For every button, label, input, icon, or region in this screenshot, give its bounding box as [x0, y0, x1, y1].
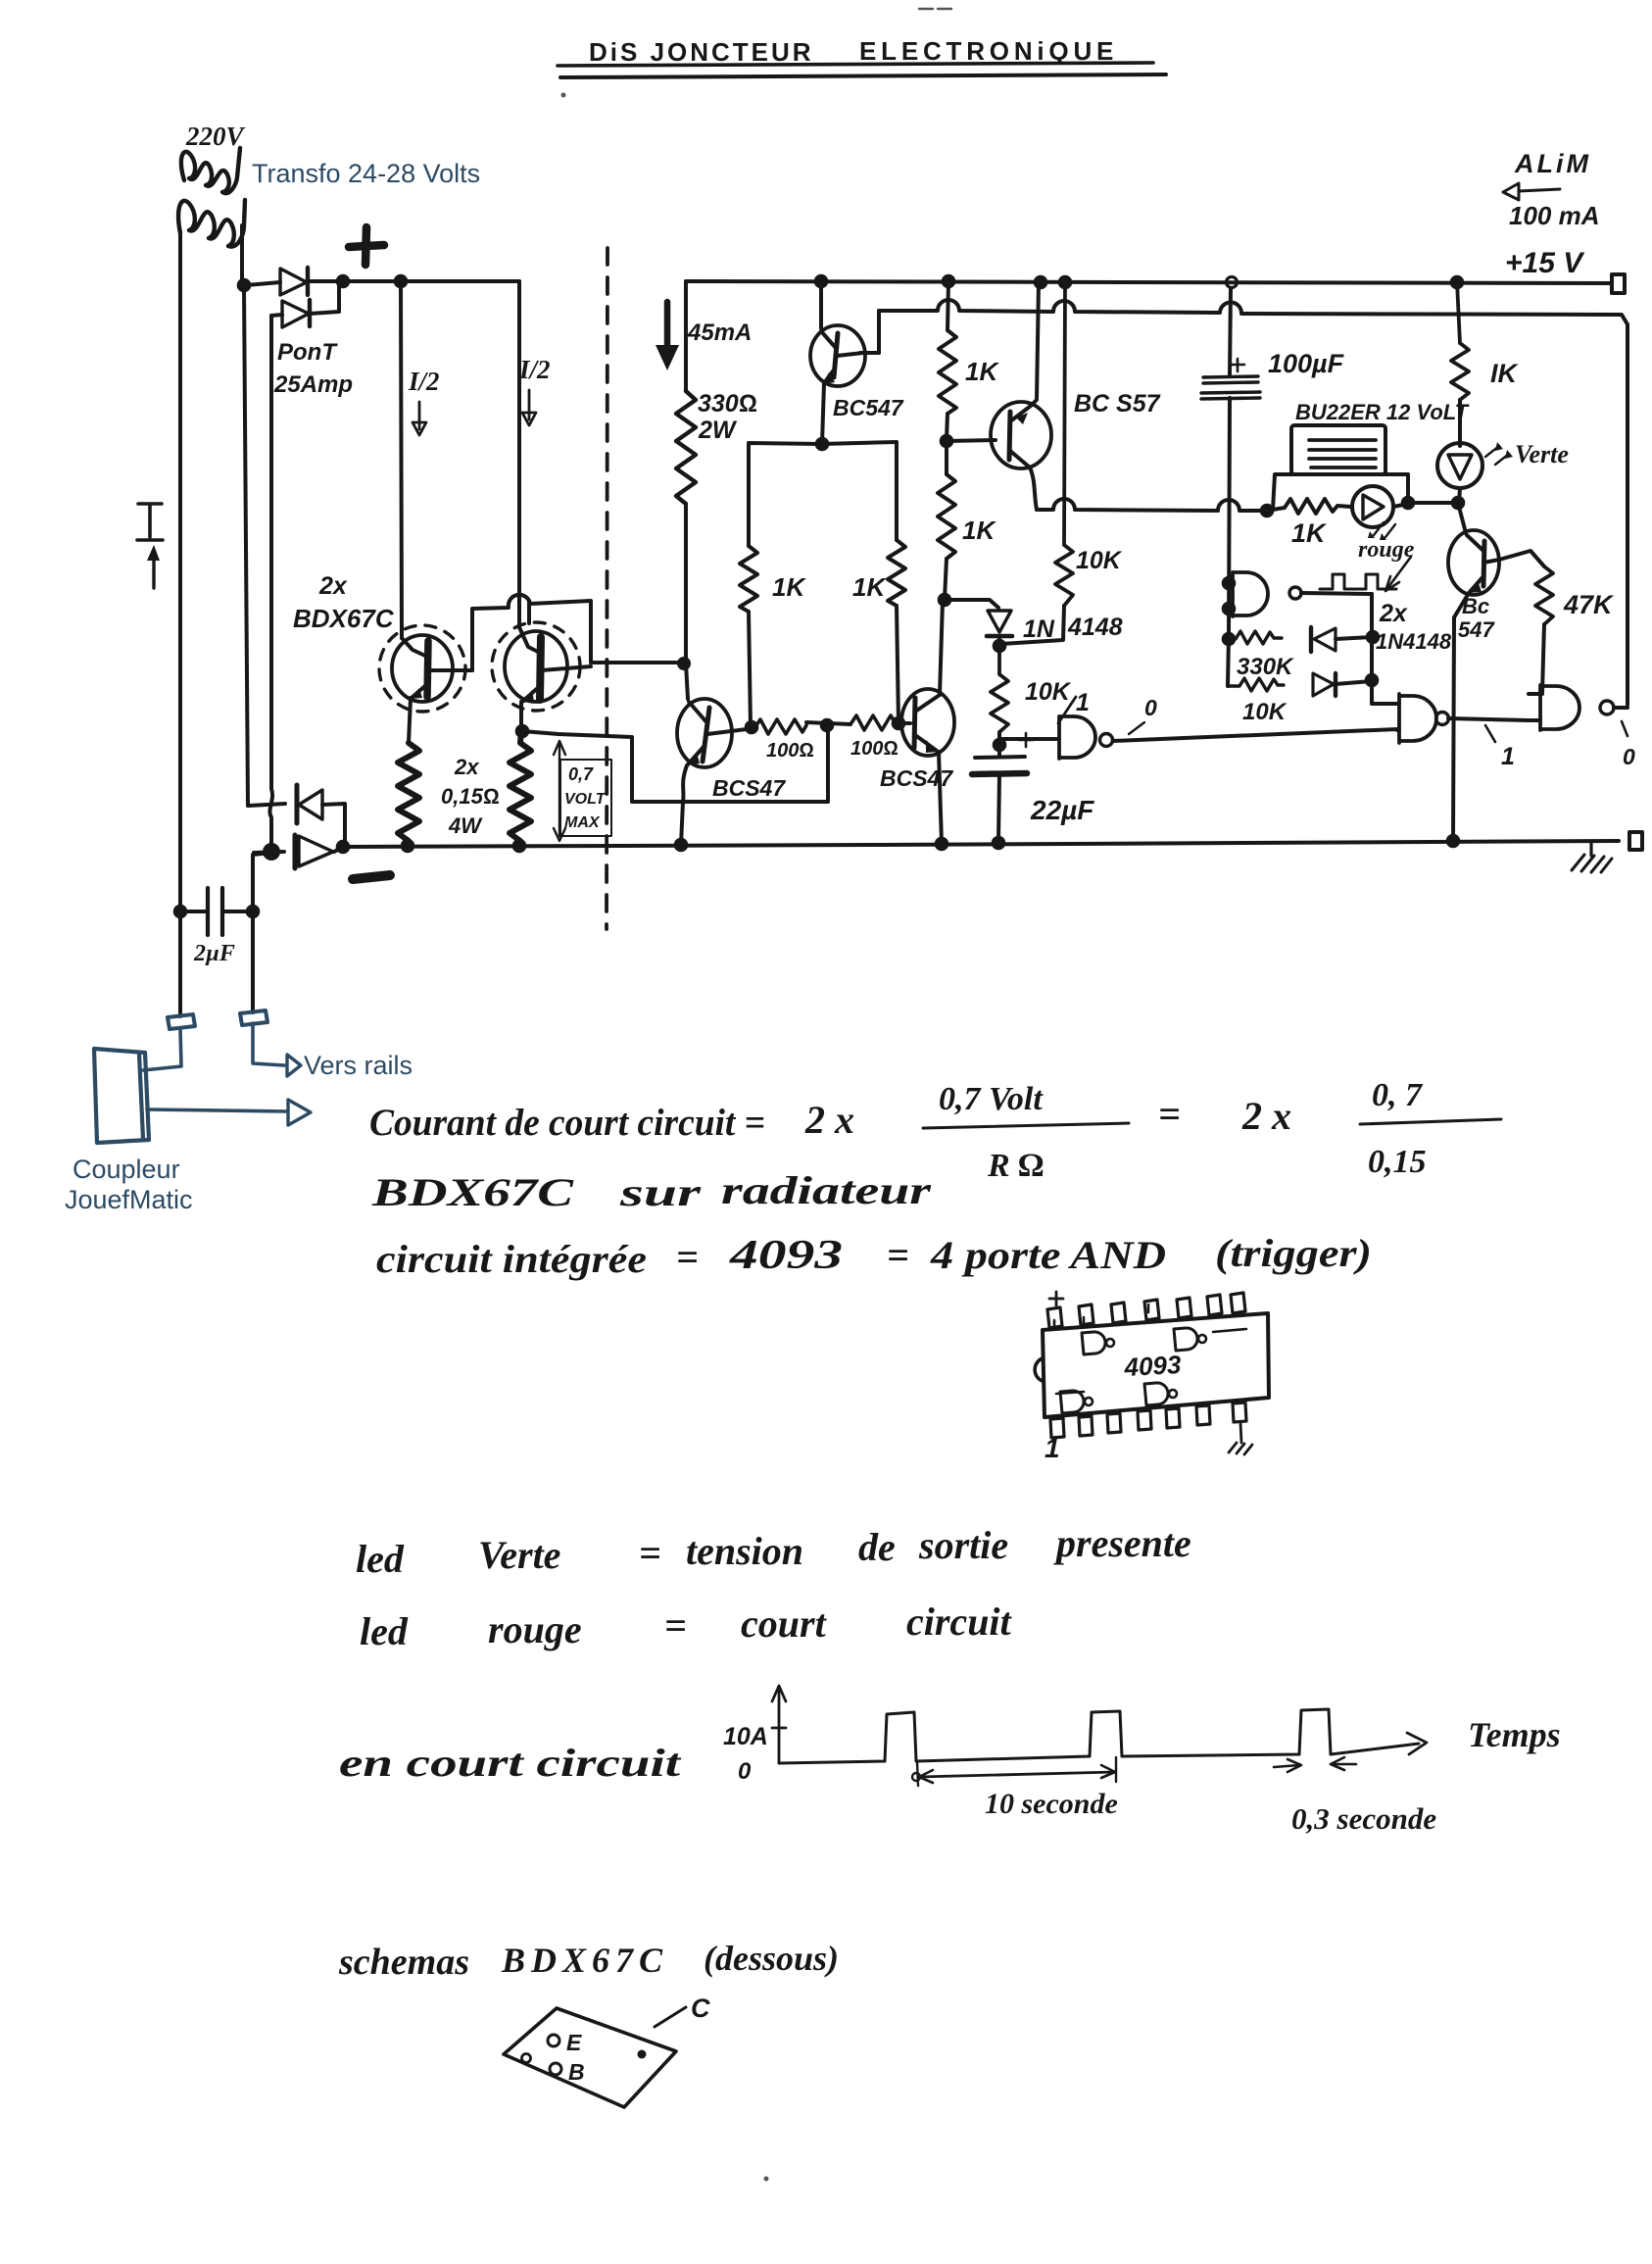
timing waveform	[779, 1709, 1419, 1763]
svg-text:100µF: 100µF	[1268, 349, 1345, 378]
svg-text:100 mA: 100 mA	[1509, 201, 1600, 230]
label 2x BDX67C	[293, 572, 395, 633]
node 100uF rail open	[1227, 277, 1238, 288]
resistor R9 1K col A lower	[938, 441, 955, 559]
wire feedback second line with hops	[860, 300, 1628, 705]
resistor R3 330ohm 2W	[676, 391, 696, 504]
wire Q2 collector vertical	[517, 281, 521, 627]
svg-text:circuit: circuit	[906, 1600, 1013, 1644]
node Q4 emitter on rail	[674, 838, 689, 853]
IC pin 3	[1107, 1413, 1121, 1433]
buzzer BZ1	[1291, 425, 1385, 474]
svg-text:de: de	[858, 1525, 896, 1569]
svg-text:10A: 10A	[723, 1723, 768, 1750]
node cap left	[173, 905, 188, 919]
wire Q1 collector vertical	[401, 281, 402, 638]
node BC557 emitter rail	[1034, 275, 1048, 290]
package hole B	[550, 2063, 561, 2075]
svg-text:0: 0	[1623, 744, 1635, 769]
IC pin 13	[1079, 1304, 1093, 1325]
IC internal gate b	[1174, 1328, 1197, 1351]
svg-text:PonT: PonT	[277, 339, 338, 366]
svg-text:2 x: 2 x	[1241, 1094, 1291, 1138]
svg-text:(trigger): (trigger)	[1215, 1231, 1372, 1275]
node 1K col A	[942, 274, 956, 289]
resistor R2 0.15ohm	[510, 731, 531, 841]
svg-text:22µF: 22µF	[1030, 795, 1094, 825]
IC pin 4	[1138, 1410, 1151, 1430]
node BC557 base branch	[940, 434, 954, 449]
IC pin 14	[1047, 1307, 1062, 1328]
label BCS47	[712, 775, 786, 801]
svg-text:led: led	[360, 1609, 409, 1653]
wire top-left + rail	[343, 279, 519, 283]
LED D8 rouge	[1352, 486, 1393, 527]
svg-text:circuit intégrée: circuit intégrée	[376, 1237, 647, 1281]
node green LED col rail	[1450, 275, 1465, 290]
node mid 100ohm	[820, 718, 835, 733]
measure 10 secondes	[919, 1772, 1115, 1777]
IC pin 5	[1166, 1408, 1180, 1428]
svg-text:10K: 10K	[1076, 547, 1123, 574]
resistor R16 47K	[1535, 566, 1553, 624]
svg-text:Bc: Bc	[1462, 594, 1489, 618]
IC pin 2	[1079, 1416, 1093, 1436]
svg-text:=: =	[1158, 1092, 1181, 1136]
svg-text:45mA: 45mA	[687, 320, 752, 346]
IC internal gate a	[1082, 1332, 1105, 1354]
node 330R / BDX collectors	[677, 657, 691, 670]
timing axis vertical	[772, 1686, 786, 1763]
wire G1 output to G3	[1113, 729, 1397, 741]
package hole E	[548, 2035, 559, 2046]
IC internal wires	[1054, 1304, 1246, 1394]
svg-text:ALiM: ALiM	[1514, 149, 1591, 178]
svg-text:4 porte AND: 4 porte AND	[930, 1233, 1166, 1277]
diode D2 bridge top	[271, 315, 282, 316]
connector J1	[168, 1014, 195, 1029]
wire transformer right terminal down	[240, 225, 244, 285]
svg-text:0,3 seconde: 0,3 seconde	[1291, 1801, 1436, 1836]
wire oscillator column	[1372, 594, 1395, 704]
terminal +15V	[1612, 274, 1625, 293]
wire 1K pair top rail	[749, 442, 897, 546]
svg-text:tension: tension	[686, 1529, 803, 1573]
svg-text:Temps: Temps	[1468, 1715, 1561, 1754]
label I/2 left with arrow	[408, 367, 440, 396]
svg-text:2W: 2W	[698, 417, 738, 444]
svg-text:BDX67C: BDX67C	[501, 1941, 668, 1980]
IC U1 4093 body	[1043, 1313, 1269, 1417]
LED D9 verte	[1437, 443, 1482, 488]
node R1 bottom	[401, 839, 415, 854]
svg-text:100Ω: 100Ω	[766, 740, 814, 762]
svg-text:0,7 Volt: 0,7 Volt	[939, 1081, 1044, 1117]
svg-text:ELECTRONiQUE: ELECTRONiQUE	[859, 36, 1118, 66]
node G2 input b	[1222, 602, 1237, 616]
svg-text:0: 0	[1144, 695, 1157, 720]
wire minus stub to cap column	[253, 853, 271, 1012]
svg-text:25Amp: 25Amp	[273, 371, 353, 398]
svg-text:I/2: I/2	[408, 367, 440, 396]
svg-text:IK: IK	[1490, 359, 1520, 388]
svg-text:4148: 4148	[1067, 614, 1123, 641]
svg-text:BC S57: BC S57	[1074, 390, 1161, 418]
svg-text:1K: 1K	[965, 357, 999, 386]
svg-text:B: B	[568, 2059, 585, 2085]
transformer T1 secondary	[178, 200, 245, 247]
transistor Q6 BC557	[947, 440, 996, 441]
svg-text:Coupleur: Coupleur	[73, 1155, 180, 1184]
wire left vertical from transformer to coupler	[178, 231, 182, 1016]
node 10K col rail	[1058, 275, 1073, 290]
diode D3 bridge bottom	[248, 804, 285, 806]
IC label 4093	[1123, 1350, 1183, 1382]
svg-text:10 seconde: 10 seconde	[985, 1788, 1118, 1820]
svg-text:330K: 330K	[1237, 654, 1294, 680]
diode D1 bridge top	[246, 282, 280, 285]
svg-text:rouge: rouge	[488, 1607, 582, 1651]
svg-text:=: =	[676, 1235, 699, 1279]
svg-text:R Ω: R Ω	[987, 1148, 1044, 1184]
node 330K branch	[1366, 630, 1381, 645]
label I/2 right with arrow	[518, 355, 551, 384]
wire bottom 0V rail	[343, 841, 1619, 847]
current label I with arrow	[137, 504, 163, 540]
resistor R4 1K	[740, 546, 757, 612]
svg-text:4093: 4093	[1123, 1350, 1183, 1382]
svg-text:BCS47: BCS47	[880, 765, 953, 791]
IC pin 1	[1050, 1418, 1064, 1438]
connector J2	[240, 1010, 267, 1025]
minus symbol	[353, 875, 390, 879]
wire +15V top rail	[686, 281, 1612, 283]
node 10K branch	[1365, 673, 1380, 688]
wire bridge left vertical B	[269, 316, 272, 849]
svg-text:radiateur: radiateur	[721, 1168, 932, 1212]
capacitor C1 2uF	[180, 910, 253, 913]
svg-text:=: =	[887, 1233, 909, 1277]
svg-text:1N: 1N	[1023, 615, 1055, 643]
svg-text:en court circuit: en court circuit	[339, 1741, 683, 1785]
node Q5 emitter rail	[935, 837, 949, 852]
package BDX67C outline	[504, 2008, 676, 2107]
svg-text:led: led	[356, 1537, 405, 1581]
svg-text:court: court	[741, 1601, 828, 1646]
node green col	[1451, 496, 1466, 511]
IC pin 6	[1196, 1405, 1210, 1425]
resistor R11 10K vertical	[991, 646, 1008, 732]
formula line 1 courant de court circuit	[369, 1077, 1427, 1184]
IC pin 11	[1144, 1300, 1159, 1320]
svg-text:1: 1	[1501, 743, 1515, 770]
IC notch	[1035, 1358, 1043, 1381]
diode D6	[1309, 627, 1313, 652]
transistor Q1 BDX67C	[379, 625, 465, 712]
node cap right	[246, 905, 261, 919]
gate G1 NAND	[999, 739, 1056, 745]
wire blue coupler output	[147, 1109, 286, 1111]
svg-text:4093: 4093	[729, 1233, 843, 1278]
pulse waveform annotation	[1320, 574, 1396, 589]
node Q5 base	[892, 716, 906, 731]
svg-text:schemas: schemas	[338, 1942, 469, 1983]
IC plus mark	[1049, 1292, 1063, 1305]
45mA arrow	[664, 302, 671, 351]
svg-text:sur: sur	[618, 1170, 701, 1214]
svg-text:2 x: 2 x	[804, 1098, 854, 1142]
node timing cap	[993, 738, 1007, 753]
wire heatsink stub	[527, 601, 531, 623]
node G2 input a	[1222, 576, 1237, 591]
svg-text:JouefMatic: JouefMatic	[65, 1185, 193, 1214]
arrow coupler output	[288, 1100, 311, 1125]
node Q1 collector branch	[394, 274, 409, 289]
svg-text:Verte: Verte	[478, 1533, 560, 1577]
transistor Q3 BC547 top	[814, 274, 829, 289]
svg-text:1K: 1K	[962, 516, 996, 545]
IC pin 7	[1233, 1403, 1246, 1422]
note led rouge	[360, 1600, 1013, 1653]
node D5 cathode	[993, 639, 1007, 654]
svg-text:BC547: BC547	[833, 395, 904, 420]
node minus junction	[263, 843, 280, 861]
wire 100uF column down to G2 and 10K corner	[1228, 398, 1233, 686]
transistor Q5 BC547	[899, 721, 910, 725]
wire between 100ohm resistors	[806, 722, 850, 724]
resistor R13 10K	[1228, 678, 1284, 691]
svg-text:+15 V: +15 V	[1505, 247, 1585, 279]
terminal 0V right	[1629, 832, 1642, 850]
resistor R7 100ohm	[850, 715, 902, 730]
resistor R6 100ohm	[754, 719, 806, 734]
label Transfo 24-28 Volts	[252, 159, 480, 188]
label ALIM 100mA with arrow	[1509, 149, 1600, 230]
node 330K left	[1222, 632, 1237, 647]
transistor Q4 BC547	[686, 664, 688, 699]
svg-text:1K: 1K	[772, 572, 806, 602]
svg-text:1N4148: 1N4148	[1376, 629, 1452, 654]
svg-text:10K: 10K	[1242, 699, 1288, 725]
svg-text:330Ω: 330Ω	[698, 390, 757, 418]
svg-text:0, 7: 0, 7	[1372, 1077, 1424, 1113]
wire to green LED column	[1408, 501, 1458, 505]
svg-text:1: 1	[1076, 689, 1090, 716]
svg-text:2µF: 2µF	[193, 941, 235, 966]
svg-text:0: 0	[738, 1758, 752, 1785]
wire bridge left vertical A	[244, 287, 248, 806]
resistor R10 10K col	[1055, 282, 1073, 606]
diode D5 1N4148 vertical	[945, 600, 998, 608]
svg-text:220V: 220V	[185, 122, 246, 151]
note schemas BDX67C dessous	[338, 1939, 839, 1983]
svg-text:C: C	[691, 1993, 710, 2023]
node Q3 emitter	[815, 437, 830, 452]
label 2x 1N4148	[1376, 600, 1452, 654]
node cap on rail	[992, 836, 1006, 851]
wire Q2 emitter sense loop	[522, 728, 828, 802]
svg-text:DiS JONCTEUR: DiS JONCTEUR	[589, 37, 814, 67]
svg-text:0,15Ω: 0,15Ω	[441, 784, 500, 809]
wire Q2 base node to 330R column	[591, 661, 683, 664]
IC internal gate d	[1144, 1383, 1168, 1405]
resistor R14 1K horizontal	[1267, 499, 1351, 514]
wire Q1 base route over to Q2 base node	[472, 595, 591, 670]
svg-text:2x: 2x	[318, 572, 348, 600]
IC pin 9	[1207, 1295, 1222, 1315]
label +15V	[1505, 247, 1585, 279]
svg-text:presente: presente	[1053, 1521, 1191, 1565]
measure arrow 0,7V	[559, 745, 560, 836]
svg-text:1K: 1K	[852, 572, 887, 602]
resistor R5 1K	[888, 540, 905, 606]
svg-text:47K: 47K	[1563, 590, 1615, 619]
svg-text:MAX: MAX	[564, 814, 601, 831]
transformer T1 220V primary	[185, 122, 246, 151]
svg-text:E: E	[566, 2030, 582, 2055]
gate G2 NAND	[1233, 572, 1268, 616]
resistor R8 1K col A	[939, 281, 956, 414]
node transformer + bridge input	[237, 278, 252, 293]
svg-text:0,15: 0,15	[1368, 1144, 1427, 1180]
svg-text:=: =	[664, 1603, 687, 1648]
package dot C	[638, 2050, 647, 2059]
label PONT 25Amp	[273, 339, 353, 398]
node R2 bottom	[512, 839, 527, 854]
capacitor C2 22uF	[975, 757, 1025, 758]
svg-text:4W: 4W	[448, 813, 483, 838]
stray dot	[764, 2177, 769, 2182]
plus symbol	[349, 227, 384, 265]
svg-text:=: =	[639, 1531, 661, 1575]
wire G2 output	[1301, 593, 1372, 594]
svg-text:1K: 1K	[1291, 518, 1328, 548]
svg-text:VOLT: VOLT	[564, 791, 607, 808]
svg-text:rouge: rouge	[1358, 537, 1415, 563]
svg-text:10K: 10K	[1025, 678, 1072, 706]
label BCS47 under Q5	[880, 765, 953, 791]
wire +15 rail corner to 330R	[684, 281, 688, 391]
svg-text:sortie: sortie	[918, 1523, 1008, 1567]
measure 0,3 seconde	[1274, 1759, 1301, 1772]
svg-text:2x: 2x	[1379, 600, 1408, 627]
resistor R1 0.15ohm	[398, 743, 419, 841]
svg-text:BDX67C: BDX67C	[371, 1170, 575, 1214]
node plus rail left	[336, 274, 351, 289]
node 1N4148 anode branch	[938, 593, 952, 608]
dashed separator line	[607, 248, 607, 929]
transistor Q7 BC547 right	[1458, 503, 1466, 533]
ground symbol right	[1589, 841, 1592, 856]
label 0,7 VOLT MAX boxed	[560, 760, 611, 836]
resistor R12 330K	[1229, 631, 1282, 644]
svg-text:Courant de court circuit =: Courant de court circuit =	[369, 1102, 765, 1144]
svg-text:I/2: I/2	[518, 355, 551, 384]
svg-text:0,7: 0,7	[568, 764, 594, 784]
IC pin 8	[1231, 1293, 1245, 1313]
note led verte	[356, 1521, 1191, 1581]
IC pin 12	[1111, 1303, 1126, 1323]
svg-text:(dessous): (dessous)	[704, 1939, 839, 1978]
formula line 2 BDX67C sur radiateur	[371, 1168, 932, 1214]
wire 330R to collector node	[684, 504, 688, 663]
svg-text:Transfo 24-28 Volts: Transfo 24-28 Volts	[252, 159, 480, 188]
note en court circuit	[339, 1741, 683, 1785]
node 100ohm left	[745, 720, 759, 735]
node buzzer right	[1401, 496, 1416, 511]
gate G4 NAND	[1540, 685, 1579, 730]
formula line 3 circuit integree 4093	[376, 1231, 1372, 1281]
IC internal gate c	[1060, 1391, 1084, 1413]
wire blue J2 to vers rails	[253, 1023, 284, 1065]
IC ground pin mark	[1229, 1423, 1252, 1454]
arrow vers rails	[287, 1055, 301, 1076]
node Q2 emitter	[515, 724, 530, 739]
transistor Q2 BDX67C	[492, 622, 580, 711]
label 2x 0,15 4W	[441, 755, 500, 838]
svg-text:BCS47: BCS47	[712, 775, 786, 801]
diode D7	[1313, 673, 1334, 696]
node rail bottom left	[336, 840, 351, 855]
svg-text:100Ω: 100Ω	[850, 738, 899, 760]
svg-text:BU22ER 12 VoLT: BU22ER 12 VoLT	[1295, 400, 1470, 424]
lead line to C	[655, 2007, 686, 2027]
svg-text:Vers rails: Vers rails	[304, 1051, 413, 1080]
node Q7 emitter rail	[1446, 834, 1461, 849]
title DISJONCTEUR ELECTRONIQUE	[589, 36, 1118, 67]
diode D4 bridge bottom	[254, 852, 284, 853]
capacitor C3 100uF	[1230, 288, 1231, 375]
svg-text:1: 1	[1045, 1433, 1060, 1463]
coupler box	[94, 1049, 149, 1143]
svg-text:Verte: Verte	[1515, 440, 1569, 468]
wire third line BC557 collector with hops	[1037, 499, 1267, 511]
svg-text:2x: 2x	[454, 755, 479, 779]
node buzzer left	[1260, 504, 1275, 518]
IC pin 10	[1177, 1298, 1191, 1318]
resistor R15 1K vertical right	[1451, 282, 1469, 400]
svg-text:547: 547	[1458, 617, 1495, 642]
IC label 1	[1045, 1433, 1060, 1463]
wire blue J1 to coupler	[143, 1029, 181, 1070]
package small hole left	[522, 2054, 531, 2063]
gate G3 NAND	[1399, 694, 1436, 743]
svg-text:BDX67C: BDX67C	[293, 604, 395, 633]
